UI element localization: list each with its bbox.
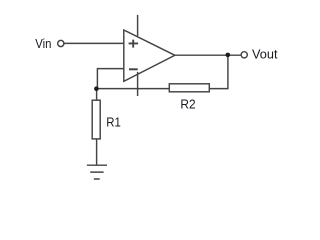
junction node at feedback	[94, 86, 99, 91]
svg-text:R2: R2	[180, 97, 195, 112]
wire feedback node to R1 top	[96, 89, 98, 101]
wire R1 bottom to ground	[96, 139, 98, 165]
wire feedback node to R2 left	[97, 88, 170, 90]
wire R2 right to output node	[209, 55, 228, 88]
ground	[87, 165, 107, 179]
op-amp - input symbol	[129, 68, 138, 70]
svg-text:R1: R1	[106, 115, 121, 130]
wire -input to feedback node	[97, 69, 123, 89]
op-amp U1 triangle body	[124, 30, 175, 81]
resistor R2 body	[169, 84, 209, 92]
junction node at output	[226, 53, 231, 58]
wire op-amp output to Vout	[175, 54, 241, 56]
op-amp V+ power pin	[137, 15, 139, 36]
svg-text:Vin: Vin	[35, 36, 51, 51]
wire Vin to +input	[64, 42, 124, 44]
op-amp + input symbol	[129, 40, 139, 48]
node Vout terminal circle	[241, 52, 247, 58]
svg-text:Vout: Vout	[252, 47, 278, 62]
resistor R1 body	[92, 100, 100, 139]
op-amp V- power pin	[137, 72, 139, 96]
node Vin terminal circle	[58, 40, 64, 46]
